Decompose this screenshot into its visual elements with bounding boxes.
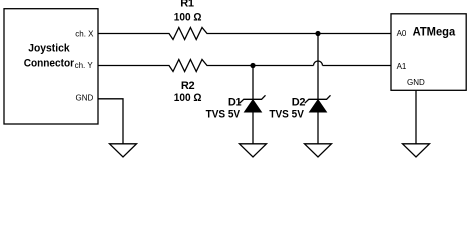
svg-text:A0: A0 — [397, 29, 407, 38]
svg-text:R2: R2 — [181, 80, 195, 92]
svg-text:R1: R1 — [180, 0, 194, 9]
svg-text:ch. Y: ch. Y — [75, 61, 94, 70]
svg-text:A1: A1 — [397, 62, 407, 71]
svg-text:ch. X: ch. X — [75, 30, 94, 39]
svg-text:TVS 5V: TVS 5V — [269, 108, 304, 120]
svg-text:ATMega: ATMega — [413, 25, 456, 39]
svg-text:GND: GND — [76, 94, 94, 103]
svg-text:D2: D2 — [292, 96, 306, 108]
svg-text:Connector: Connector — [24, 58, 75, 70]
svg-text:TVS 5V: TVS 5V — [206, 108, 241, 120]
svg-text:100 Ω: 100 Ω — [174, 92, 202, 104]
svg-text:D1: D1 — [228, 96, 242, 108]
svg-text:GND: GND — [407, 78, 425, 87]
svg-text:Joystick: Joystick — [28, 42, 70, 54]
svg-text:100 Ω: 100 Ω — [174, 12, 202, 24]
